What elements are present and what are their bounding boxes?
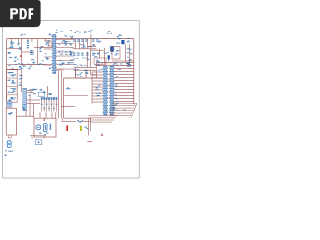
page sheet border bbox=[3, 21, 140, 179]
wire H-c5b bbox=[91, 49, 104, 51]
label polarity marks bbox=[88, 141, 92, 142]
wire H7 bbox=[74, 69, 96, 71]
relay coil RL1a bbox=[36, 125, 41, 130]
diode D6 bbox=[22, 104, 25, 110]
cap bank labels lower bbox=[73, 58, 89, 60]
terminal block TB1 row 1 text bbox=[8, 72, 17, 76]
wire U1-to-box bbox=[56, 69, 64, 71]
capacitor C16 bbox=[127, 38, 130, 43]
wire cap-bank rail bbox=[73, 48, 97, 50]
relay pin mark bbox=[44, 119, 45, 121]
wire V4 bbox=[104, 48, 106, 64]
wire V11 bbox=[33, 104, 35, 119]
wire U2 pin left 10 bbox=[92, 98, 103, 100]
transformer T1 bbox=[23, 88, 27, 111]
wire H9 bbox=[112, 60, 134, 62]
wire cap-bank feed 5 bbox=[90, 34, 92, 49]
wire U1 pin right 6 bbox=[56, 60, 74, 62]
bus labels bbox=[104, 107, 126, 112]
switch S1 body bbox=[35, 140, 42, 145]
net label AC-N bbox=[70, 30, 81, 33]
cap bank labels upper bbox=[80, 44, 95, 48]
wire U2 pin left 9 bbox=[92, 95, 103, 97]
diode D2 bbox=[45, 53, 49, 59]
junction node B bbox=[79, 73, 81, 75]
wire U1 pin right 2 bbox=[56, 43, 74, 45]
wire V-capbank2 bbox=[99, 49, 101, 58]
capacitor C9 bbox=[31, 59, 35, 63]
resistor R7 bbox=[95, 85, 100, 90]
wire U2 pin left 4 bbox=[92, 80, 103, 82]
wire V-mid bbox=[37, 39, 39, 65]
wire U3 pin right 10 bbox=[114, 89, 134, 91]
comparator U5 text bbox=[96, 60, 103, 64]
wire H4 bbox=[21, 64, 53, 66]
optocoupler OC1 bbox=[66, 87, 71, 89]
fuse F1 link wires bbox=[8, 135, 11, 138]
net name band 2 bbox=[75, 72, 87, 76]
capacitor C3 bbox=[30, 50, 34, 55]
capacitor C12 right col bbox=[127, 57, 132, 61]
document page background bbox=[0, 0, 149, 198]
wire U3 pin right 9 bbox=[114, 86, 134, 88]
wire U3 pin right 14 bbox=[114, 101, 134, 103]
capacitor bank row 1 bbox=[58, 40, 71, 46]
terminal block divider 2 bbox=[7, 85, 18, 87]
wire H13 bbox=[27, 99, 41, 101]
wire H6 bbox=[74, 67, 96, 69]
wire H-preU1 bbox=[34, 47, 53, 49]
diode D1 bbox=[8, 52, 12, 58]
wire bus return lines bbox=[89, 116, 119, 122]
resistor network RN1 bbox=[8, 63, 32, 69]
transistor Q1 bbox=[85, 72, 88, 74]
terminal block divider 3 bbox=[7, 94, 18, 96]
line filter FL1 bbox=[7, 101, 13, 107]
wire H2b bbox=[7, 47, 22, 49]
wire U2 pin left 6 bbox=[92, 86, 103, 88]
resistor R1 bbox=[17, 43, 22, 50]
wire U3 pin right 4 bbox=[114, 71, 134, 73]
wire U3 pin right 7 bbox=[114, 80, 134, 82]
wire V8 bbox=[61, 118, 63, 121]
IC U4 body bbox=[110, 46, 114, 52]
wire V9 bbox=[21, 70, 23, 93]
wire V2b bbox=[75, 68, 77, 79]
capacitor C11 right col bbox=[126, 52, 132, 54]
rectifier BR1 bbox=[29, 89, 38, 96]
wire FL1 feed bbox=[8, 99, 10, 108]
wire H8 bbox=[100, 62, 112, 64]
resistor R8 bbox=[96, 93, 101, 96]
net label VCC bbox=[20, 34, 26, 36]
driver IC U3 bbox=[109, 66, 115, 115]
capacitor C8 bbox=[19, 75, 23, 80]
wire bus bundle bbox=[109, 103, 137, 118]
diode D5 bbox=[108, 55, 110, 61]
microcontroller U2 bbox=[103, 66, 109, 115]
wire U3 pin right 12 bbox=[114, 95, 134, 97]
wire U1 pin right 8 bbox=[56, 68, 74, 70]
wire U2 pin left 8 bbox=[92, 92, 103, 94]
label top right bbox=[111, 48, 115, 50]
op-amp IC U1 bbox=[52, 35, 57, 74]
wire U3 pin right 13 bbox=[114, 98, 134, 100]
junction node A bbox=[20, 55, 22, 57]
wire V6 bbox=[88, 118, 90, 135]
power box left edge bbox=[63, 78, 65, 118]
wire V5 bbox=[91, 72, 93, 104]
label X1 bottom bbox=[5, 150, 13, 151]
net label right top bbox=[107, 31, 112, 33]
resistor R4 bbox=[38, 60, 43, 65]
wire U3 pin right 5 bbox=[114, 74, 134, 76]
schematic frame right border bbox=[133, 39, 135, 104]
wire U2 pin left 11 bbox=[92, 101, 103, 103]
regulator VR1 outline bbox=[112, 47, 120, 60]
capacitor C5 bbox=[94, 53, 100, 57]
label D5 bbox=[104, 52, 113, 54]
terminal block TB1 row 4 text bbox=[8, 97, 16, 101]
fuse F1 bbox=[7, 141, 11, 148]
mains X1 text bbox=[8, 112, 13, 115]
capacitor C4 bbox=[45, 40, 49, 45]
label C22 value bbox=[98, 41, 101, 43]
switch S1 wires bbox=[30, 136, 46, 139]
resistor row RB bbox=[113, 63, 131, 70]
wire bus drop 1 bbox=[58, 71, 60, 118]
capacitor C13 right col bbox=[126, 62, 131, 65]
wire U1 pin left 2 bbox=[44, 48, 52, 50]
wire U1 pin right 7 bbox=[56, 64, 74, 66]
connector J2 marks bbox=[113, 102, 119, 106]
terminal block TB1 outline bbox=[7, 70, 18, 103]
label U1 text bbox=[49, 33, 53, 35]
rectifier BR1 wires bbox=[27, 90, 34, 92]
power box bottom edge bbox=[64, 117, 91, 119]
label C7 bbox=[118, 34, 122, 35]
wire H-boxlow bbox=[61, 105, 75, 107]
wire H12 bbox=[62, 121, 76, 123]
wire H2 bbox=[22, 51, 35, 53]
wire U2 pin left 1 bbox=[92, 71, 103, 73]
net label bank top bbox=[84, 30, 93, 33]
diode D7 bbox=[42, 92, 45, 94]
capacitor C7 body bbox=[121, 40, 124, 44]
capacitor bank lower row C26-C30 bbox=[73, 53, 94, 56]
wire U2 pin left 7 bbox=[92, 89, 103, 91]
label net rows bbox=[74, 64, 87, 66]
resistor R9 bbox=[84, 127, 88, 129]
switch S1 dot bbox=[38, 141, 40, 143]
wire junction cross bbox=[101, 134, 103, 136]
resistor R6 bbox=[95, 61, 100, 66]
resistor R3 bbox=[39, 46, 43, 52]
wire U1 pin left 3 bbox=[44, 56, 52, 58]
relay RL1 outline bbox=[34, 118, 56, 137]
wire cap-bank feed 2 bbox=[79, 39, 81, 49]
LED DS2 bbox=[80, 126, 82, 131]
relay RL1 text bbox=[39, 133, 49, 135]
wire U3 pin right 6 bbox=[114, 77, 134, 79]
wire H-c5a bbox=[88, 46, 97, 48]
wire drops J1-RL1 bbox=[40, 112, 56, 118]
schematic frame left border bbox=[6, 39, 8, 109]
connector J1 shroud bbox=[38, 92, 44, 96]
U3 pin numbers bbox=[114, 74, 118, 100]
varistor RV1 bbox=[19, 67, 23, 70]
wire V10 bbox=[29, 94, 31, 116]
label J1 bbox=[39, 89, 42, 91]
wire U3 pin right 8 bbox=[114, 83, 134, 85]
inductor L1 bbox=[19, 82, 23, 86]
wire V12 bbox=[25, 110, 27, 116]
wire H10 bbox=[64, 95, 88, 97]
wire U3 pin right 3 bbox=[114, 68, 134, 70]
schematic frame top border bbox=[7, 38, 134, 40]
wire H11 bbox=[78, 121, 91, 123]
wire U3 pin right 1 bbox=[97, 62, 134, 64]
mains input X1 bbox=[6, 108, 16, 135]
wire U2-U3 stubs bbox=[107, 74, 110, 98]
wire U2 pin left 3 bbox=[92, 77, 103, 79]
wire U1 pin right 5 bbox=[56, 55, 74, 57]
wire U1 pin right 4 bbox=[56, 51, 74, 53]
capacitor bank row 2 bbox=[58, 51, 72, 56]
wire cap-bank feed 4 bbox=[87, 39, 89, 49]
relay terminal bar bbox=[50, 124, 52, 130]
capacitor C1b bbox=[9, 46, 13, 48]
capacitor C2 bbox=[27, 41, 29, 49]
relay contact RL1b bbox=[43, 123, 47, 131]
resistor R10 bbox=[49, 93, 53, 95]
capacitor C1 bbox=[10, 42, 14, 45]
wire U1 pin right 3 bbox=[56, 47, 74, 49]
regulator VR1 text bbox=[115, 50, 120, 56]
wire bus V1 bbox=[21, 39, 23, 65]
terminal block TB1 row 2 text bbox=[8, 80, 16, 84]
net name band bbox=[74, 69, 88, 71]
wire bus drop 2 bbox=[60, 71, 62, 118]
wire U2 pin left 2 bbox=[92, 74, 103, 76]
crystal Y1 outline bbox=[49, 42, 53, 46]
relay K1 outline bbox=[76, 70, 87, 78]
wire H15 bbox=[16, 115, 34, 117]
wire cap-bank feed 1 bbox=[75, 39, 77, 49]
wire right col b bbox=[129, 44, 131, 62]
LED DS1 bbox=[66, 125, 68, 131]
wire U3 pin right 2 bbox=[97, 65, 134, 67]
header connector J1 bbox=[41, 97, 58, 111]
wire V2 bbox=[87, 52, 89, 68]
wire stubs from top frame bbox=[12, 39, 46, 44]
net label AC-L bbox=[55, 30, 62, 33]
capacitor bank upper row C20-C25 bbox=[73, 39, 98, 42]
wire right col a bbox=[125, 44, 127, 62]
wire H3 bbox=[7, 68, 21, 70]
wire H14 bbox=[27, 103, 41, 105]
wire V3 bbox=[90, 49, 92, 68]
wire U3 pin right 11 bbox=[114, 92, 134, 94]
wire U1 pin right 1 bbox=[56, 39, 74, 41]
wire V-J1top bbox=[47, 86, 49, 97]
power box top edge bbox=[64, 77, 103, 79]
terminal block divider 1 bbox=[7, 77, 18, 79]
comparator U5 outline bbox=[94, 58, 106, 65]
resistor R2 bbox=[14, 57, 18, 62]
PDF file-type badge bbox=[0, 0, 41, 27]
wire V7 bbox=[90, 118, 92, 131]
label X1 bottom 2 bbox=[4, 155, 7, 156]
wire U1 pin left 1 bbox=[44, 40, 52, 42]
wire K1 right bbox=[91, 62, 97, 78]
wire U1 pin left 4 bbox=[44, 64, 52, 66]
label row above RC bbox=[64, 36, 73, 39]
wire cap-bank feed 3 bbox=[83, 39, 85, 49]
label LED row bbox=[77, 120, 83, 123]
capacitor C6 bbox=[116, 36, 121, 44]
capacitor bank row 3 bbox=[59, 60, 74, 66]
terminal block TB1 row 3 text bbox=[8, 88, 17, 93]
label U2 bbox=[98, 69, 103, 71]
grid top labels bbox=[49, 67, 54, 69]
wire U2 pin left 5 bbox=[92, 83, 103, 85]
capacitor C10 right col bbox=[127, 48, 132, 49]
wire bus H1 bbox=[7, 64, 45, 66]
